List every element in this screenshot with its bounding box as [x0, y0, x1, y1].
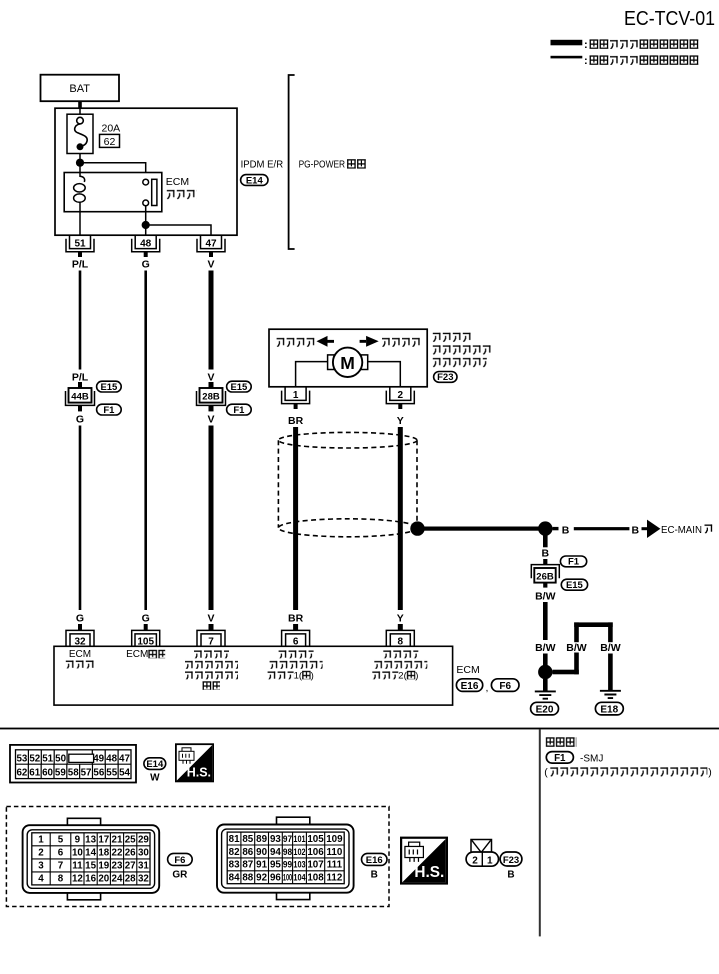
svg-text:E18: E18 — [600, 704, 618, 715]
svg-text:44B: 44B — [71, 392, 89, 403]
wire motor internal left — [296, 362, 329, 387]
svg-text:ECM: ECM — [456, 664, 479, 676]
wire E18 down — [608, 654, 613, 691]
horizontal divider — [0, 728, 719, 730]
junction node at relay output — [142, 221, 150, 229]
svg-text:Y: Y — [397, 613, 404, 625]
svg-text:W: W — [150, 773, 160, 784]
motor M circle — [333, 348, 362, 377]
svg-text:48: 48 — [140, 238, 152, 249]
pin 6 connector — [282, 624, 310, 647]
svg-text:60: 60 — [42, 768, 53, 779]
pin 48 connector — [132, 235, 160, 257]
svg-text:18: 18 — [98, 848, 109, 859]
svg-text:GR: GR — [172, 870, 188, 881]
relay ECM box — [64, 173, 162, 212]
connector view E14 grid — [10, 745, 136, 783]
dashed group box — [6, 807, 389, 907]
svg-text:32: 32 — [74, 636, 86, 647]
svg-text:ECM: ECM — [166, 176, 189, 188]
label オープン — [276, 337, 315, 347]
connector 26B — [531, 559, 559, 588]
svg-text:89: 89 — [256, 834, 267, 845]
svg-text:28B: 28B — [202, 392, 220, 403]
svg-text:E20: E20 — [536, 704, 554, 715]
pin 47 connector — [197, 235, 225, 257]
svg-text:E16: E16 — [366, 855, 383, 866]
oval E16 (view) — [362, 853, 388, 865]
connector 44B — [66, 382, 95, 411]
svg-text:-SMJ: -SMJ — [580, 753, 603, 764]
wire G col1 lower — [79, 426, 82, 611]
wire branch upper — [574, 622, 579, 642]
svg-text:105: 105 — [137, 636, 154, 647]
svg-text:M: M — [340, 353, 355, 373]
svg-text:B: B — [371, 870, 378, 881]
svg-text:96: 96 — [270, 873, 281, 884]
relay coil — [80, 173, 85, 183]
wire E18 branch upper — [608, 622, 613, 642]
svg-text:81: 81 — [229, 834, 240, 845]
svg-text:111: 111 — [327, 860, 343, 871]
svg-text:31: 31 — [138, 861, 149, 872]
svg-text:7: 7 — [58, 861, 64, 872]
svg-text:): ) — [311, 670, 314, 681]
svg-text:57: 57 — [81, 768, 92, 779]
motor terminal tabs — [328, 355, 335, 370]
connector view F6 — [23, 818, 160, 900]
wire coil to pin 51 — [79, 212, 81, 236]
pin 1 connector (motor) — [282, 387, 310, 409]
svg-text:104: 104 — [293, 873, 305, 883]
svg-text:26: 26 — [125, 848, 136, 859]
ground E18 — [600, 691, 621, 698]
svg-text:): ) — [708, 766, 712, 778]
oval E16 — [456, 679, 482, 692]
svg-text:99: 99 — [283, 860, 292, 870]
oval E18 — [595, 702, 623, 715]
svg-text:F23: F23 — [503, 855, 519, 866]
svg-text:8: 8 — [58, 874, 64, 885]
svg-text:110: 110 — [326, 847, 342, 858]
relay switch contacts — [143, 179, 149, 185]
legend thick bar — [551, 40, 583, 46]
svg-text:1: 1 — [487, 855, 493, 866]
IPDM E/R box — [55, 108, 237, 235]
svg-text:21: 21 — [112, 835, 123, 846]
wire into fuse — [79, 108, 81, 114]
svg-text:B: B — [632, 525, 640, 537]
svg-text:82: 82 — [229, 847, 240, 858]
svg-text:58: 58 — [68, 768, 79, 779]
wire B down from junction — [543, 533, 548, 547]
wire G col2 full — [144, 271, 147, 611]
svg-text::: : — [584, 55, 588, 67]
svg-text:F1: F1 — [103, 405, 115, 416]
svg-text:F23: F23 — [437, 372, 453, 383]
svg-text:26B: 26B — [536, 572, 554, 583]
svg-text:98: 98 — [283, 847, 292, 857]
svg-text:48: 48 — [106, 753, 117, 764]
oval F23 (view) — [500, 852, 522, 866]
oval E15 at 28B — [227, 381, 252, 392]
svg-text:5: 5 — [58, 835, 64, 846]
oval F6 (view) — [168, 853, 193, 865]
wire BR col4 (thick) — [293, 427, 298, 610]
oval F23 — [434, 372, 457, 383]
ground E20 — [535, 691, 556, 698]
shield cylinder (dashed) — [278, 432, 417, 536]
E14 oval label — [241, 175, 268, 186]
wire junction to relay switch — [80, 163, 146, 180]
svg-text:B: B — [562, 525, 570, 537]
svg-text:E14: E14 — [146, 759, 164, 770]
svg-text:29: 29 — [138, 835, 149, 846]
oval E15 at 26B — [561, 579, 587, 590]
wire junction to relay coil — [79, 163, 81, 173]
relay armature bar — [152, 179, 157, 205]
wire shield to B junction — [418, 527, 546, 531]
svg-text:61: 61 — [29, 768, 40, 779]
svg-text:27: 27 — [125, 861, 136, 872]
wire fuse to junction — [79, 154, 81, 163]
H.S. icon bottom — [401, 838, 447, 884]
svg-text:F1: F1 — [568, 557, 580, 568]
svg-text:87: 87 — [242, 860, 253, 871]
wire BAT to IPDM (thick stub) — [78, 101, 82, 108]
svg-text:54: 54 — [119, 768, 130, 779]
svg-text:16: 16 — [85, 874, 96, 885]
connector 28B — [197, 382, 226, 411]
svg-text:12: 12 — [72, 874, 83, 885]
tumble control valve motor box — [269, 329, 427, 387]
oval E15 at 44B — [97, 381, 122, 392]
oval F6 — [491, 679, 519, 692]
svg-text:13: 13 — [85, 835, 96, 846]
svg-text:95: 95 — [270, 860, 281, 871]
pin 32 connector — [66, 624, 94, 647]
svg-text:EC-TCV-01: EC-TCV-01 — [624, 7, 715, 30]
svg-text:93: 93 — [270, 834, 281, 845]
oval E14 (view) — [144, 758, 166, 770]
svg-text:88: 88 — [242, 873, 253, 884]
svg-text:F1: F1 — [233, 405, 245, 416]
svg-text:G: G — [76, 613, 84, 625]
svg-text:3: 3 — [38, 861, 44, 872]
svg-text:1: 1 — [38, 835, 44, 846]
wire V col3 lower (thick) — [209, 426, 214, 611]
svg-text:52: 52 — [29, 753, 40, 764]
svg-text:51: 51 — [42, 753, 53, 764]
svg-text:94: 94 — [270, 847, 281, 858]
fuse 20A box — [67, 114, 93, 153]
svg-text:62: 62 — [16, 768, 27, 779]
arrow to EC-MAIN — [642, 527, 649, 530]
wire motor internal right — [367, 362, 400, 387]
ECM pin label タンブル コントロール バルブモータ 電源 — [193, 649, 229, 658]
reference block 参照先 — [545, 737, 576, 747]
svg-text:V: V — [207, 414, 214, 426]
wire junction to ground E20 — [543, 679, 548, 691]
svg-text:E15: E15 — [100, 382, 118, 393]
svg-text:2: 2 — [398, 390, 404, 401]
svg-text:IPDM E/R: IPDM E/R — [241, 159, 284, 171]
svg-text:23: 23 — [112, 861, 123, 872]
svg-text:E16: E16 — [461, 681, 479, 692]
oval F1 at 44B — [97, 404, 122, 415]
svg-text:30: 30 — [138, 848, 149, 859]
svg-text:B/W: B/W — [566, 642, 587, 654]
svg-text:83: 83 — [229, 860, 240, 871]
vertical divider — [539, 729, 541, 936]
svg-text:F1: F1 — [554, 753, 566, 764]
svg-text:2: 2 — [38, 848, 44, 859]
svg-text:EC-MAIN: EC-MAIN — [661, 525, 702, 536]
svg-text:49: 49 — [93, 753, 104, 764]
wire P/L col1 upper — [79, 271, 82, 370]
oval F1 at 26B — [560, 556, 586, 567]
svg-text:86: 86 — [242, 847, 253, 858]
svg-text:G: G — [76, 414, 84, 426]
svg-text:14: 14 — [85, 848, 96, 859]
oval F1 (ref) — [546, 752, 573, 764]
svg-text:108: 108 — [307, 873, 324, 884]
svg-text:F6: F6 — [174, 855, 185, 866]
svg-text:P/L: P/L — [72, 259, 89, 271]
svg-text:6: 6 — [58, 848, 64, 859]
svg-text:47: 47 — [205, 238, 217, 249]
svg-text:ECM: ECM — [69, 649, 91, 660]
svg-text:51: 51 — [74, 238, 86, 249]
svg-text:85: 85 — [242, 834, 253, 845]
wire Y col5 (thick) — [398, 427, 403, 610]
svg-text:22: 22 — [112, 848, 123, 859]
pin 2 connector (motor) — [386, 387, 414, 409]
pin 105 connector — [132, 624, 160, 647]
svg-text:97: 97 — [283, 834, 292, 844]
wire B/W — [543, 602, 548, 640]
svg-text:9: 9 — [75, 835, 81, 846]
svg-text:20: 20 — [98, 874, 109, 885]
arrow left (open) — [317, 336, 328, 347]
wire junction to pin 48 — [145, 225, 147, 235]
svg-text:2: 2 — [472, 855, 478, 866]
svg-text:2(: 2( — [398, 670, 407, 681]
svg-text:91: 91 — [256, 860, 267, 871]
svg-text:101: 101 — [293, 834, 305, 844]
svg-text:6: 6 — [293, 636, 299, 647]
svg-text:103: 103 — [293, 860, 305, 870]
svg-text:11: 11 — [72, 861, 83, 872]
motor side label タンブル コントロール バルブモータ — [432, 332, 472, 343]
svg-text:102: 102 — [293, 847, 305, 857]
svg-text:V: V — [207, 259, 214, 271]
pin 7 connector — [197, 624, 225, 647]
svg-text:B: B — [507, 870, 514, 881]
junction node ground — [538, 665, 552, 679]
pin 51 connector — [66, 235, 94, 257]
svg-text:E14: E14 — [246, 175, 264, 186]
pin 8 connector — [386, 624, 414, 647]
svg-text:BR: BR — [288, 613, 304, 625]
svg-text::: : — [584, 39, 588, 51]
svg-text:55: 55 — [106, 768, 117, 779]
svg-text:V: V — [207, 372, 214, 384]
svg-text:105: 105 — [307, 834, 324, 845]
oval F1 at 28B — [227, 404, 252, 415]
svg-text:47: 47 — [119, 753, 130, 764]
junction node B — [538, 521, 552, 535]
svg-text:24: 24 — [112, 874, 123, 885]
svg-text:1(: 1( — [294, 670, 303, 681]
wire branch junction to col7 — [553, 670, 579, 675]
legend thin bar — [551, 56, 583, 59]
svg-text:32: 32 — [138, 874, 149, 885]
svg-text:B/W: B/W — [535, 642, 556, 654]
svg-text:1: 1 — [293, 390, 299, 401]
wire to EC-MAIN — [574, 527, 630, 530]
arrow right (close) — [360, 340, 367, 343]
svg-text:100: 100 — [283, 873, 292, 883]
svg-text:50: 50 — [55, 753, 66, 764]
svg-text:53: 53 — [16, 753, 27, 764]
ECM box — [54, 646, 453, 705]
svg-text:28: 28 — [125, 874, 136, 885]
svg-text:62: 62 — [104, 136, 116, 148]
svg-text:V: V — [207, 613, 214, 625]
connector view E16 — [217, 817, 354, 899]
svg-text:19: 19 — [98, 861, 109, 872]
wire B/W to ground junction — [543, 654, 548, 667]
svg-text:8: 8 — [398, 636, 404, 647]
svg-text:92: 92 — [256, 873, 267, 884]
PG-POWER bracket — [289, 75, 295, 249]
wire junction to pin 47 — [146, 225, 211, 235]
svg-text:15: 15 — [85, 861, 96, 872]
ECM pin label タンブル コントロール バルブ1(開) — [278, 649, 314, 658]
svg-text:B/W: B/W — [600, 642, 621, 654]
connector view F23 — [466, 840, 498, 867]
junction node below fuse — [76, 159, 84, 167]
wire branch up — [574, 653, 579, 675]
ECM pin label タンブル コントロール バルブ2(開) — [382, 649, 418, 658]
svg-text:PG-POWER: PG-POWER — [299, 159, 346, 171]
svg-text:ECM: ECM — [126, 649, 148, 660]
BAT box — [41, 75, 120, 102]
svg-text:E15: E15 — [566, 580, 584, 591]
svg-text:17: 17 — [98, 835, 109, 846]
svg-text:B/W: B/W — [535, 591, 556, 603]
svg-text:E15: E15 — [230, 382, 248, 393]
svg-text:P/L: P/L — [72, 372, 89, 384]
svg-text:107: 107 — [307, 860, 324, 871]
svg-text:): ) — [415, 670, 418, 681]
svg-text:106: 106 — [307, 847, 324, 858]
svg-text:G: G — [142, 613, 150, 625]
svg-text:7: 7 — [208, 636, 214, 647]
shield junction node — [410, 521, 424, 535]
svg-text:BR: BR — [288, 415, 304, 427]
label クローズ — [381, 337, 421, 347]
svg-text:4: 4 — [38, 874, 44, 885]
wire switch to junction — [145, 206, 147, 225]
svg-text:25: 25 — [125, 835, 136, 846]
svg-text:112: 112 — [326, 873, 342, 884]
svg-text:(: ( — [544, 766, 548, 778]
svg-text:,: , — [486, 682, 489, 694]
svg-text:BAT: BAT — [69, 83, 90, 95]
svg-text:59: 59 — [55, 768, 66, 779]
svg-text:90: 90 — [256, 847, 267, 858]
wire stub right of junction — [553, 527, 559, 530]
H.S. icon top — [176, 744, 213, 781]
svg-text:84: 84 — [229, 873, 240, 884]
svg-text:109: 109 — [326, 834, 343, 845]
svg-text:Y: Y — [397, 415, 404, 427]
svg-text:20A: 20A — [102, 123, 121, 135]
svg-text:G: G — [142, 259, 150, 271]
wire branch top horizontal — [574, 622, 613, 627]
oval E20 — [531, 702, 559, 715]
svg-text:56: 56 — [93, 768, 104, 779]
svg-text:F6: F6 — [499, 681, 511, 692]
svg-text:B: B — [542, 548, 550, 560]
svg-text:10: 10 — [72, 848, 83, 859]
wire V col3 upper (thick) — [209, 271, 214, 370]
